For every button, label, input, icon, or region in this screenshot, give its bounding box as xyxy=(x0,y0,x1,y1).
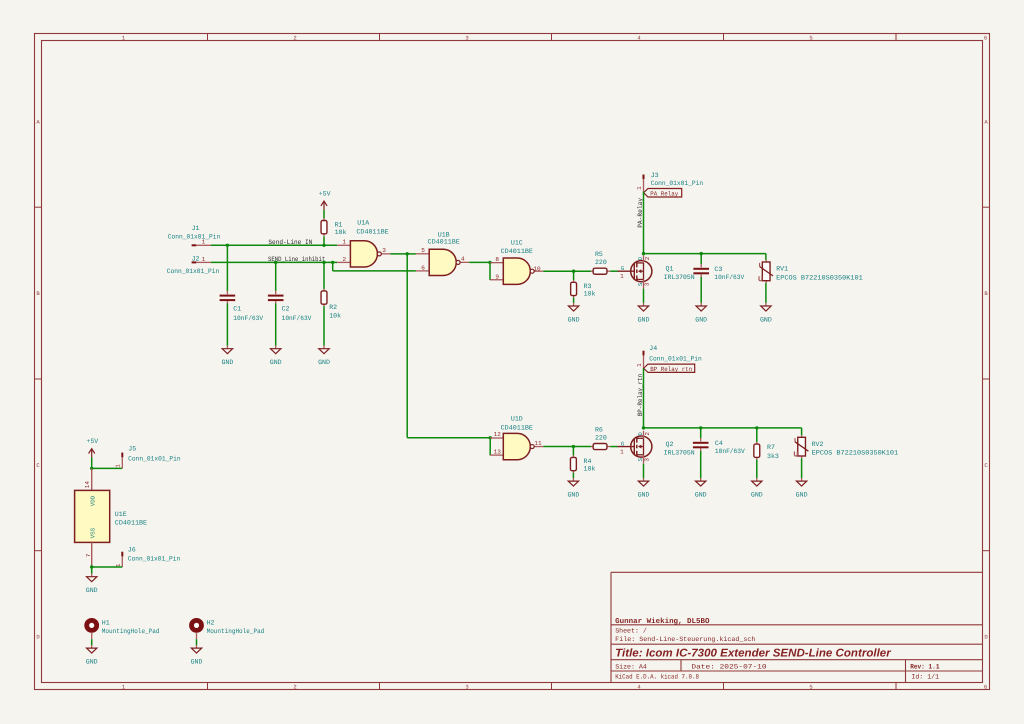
wire xyxy=(643,368,645,428)
wire xyxy=(91,639,93,645)
svg-text:1: 1 xyxy=(620,273,624,280)
svg-text:10k: 10k xyxy=(584,466,596,473)
junction xyxy=(572,270,575,273)
svg-text:2: 2 xyxy=(644,256,651,260)
frame column tick xyxy=(207,34,209,41)
capacitor C3 xyxy=(700,264,702,267)
svg-text:GND: GND xyxy=(318,359,330,366)
varistor RV1 xyxy=(765,260,767,262)
svg-text:IRL3705N: IRL3705N xyxy=(664,449,695,456)
resistor R4 xyxy=(572,455,574,457)
svg-text:1: 1 xyxy=(115,464,122,468)
svg-text:Q2: Q2 xyxy=(666,441,674,448)
svg-text:C2: C2 xyxy=(282,306,290,313)
svg-text:2: 2 xyxy=(644,432,651,436)
wire xyxy=(643,464,645,478)
wire xyxy=(756,460,758,478)
wire xyxy=(333,270,416,272)
svg-text:GND: GND xyxy=(270,359,282,366)
ground xyxy=(572,478,574,481)
wire xyxy=(323,262,325,289)
svg-text:U1C: U1C xyxy=(511,239,523,246)
wire xyxy=(700,428,702,438)
svg-text:RV2: RV2 xyxy=(812,441,824,448)
wire xyxy=(756,428,758,442)
svg-text:GND: GND xyxy=(638,492,650,499)
svg-text:G: G xyxy=(621,440,625,447)
svg-text:KiCad E.D.A. kicad 7.0.8: KiCad E.D.A. kicad 7.0.8 xyxy=(615,674,699,681)
svg-text:C1: C1 xyxy=(233,306,241,313)
frame row tick xyxy=(35,206,42,208)
svg-text:1: 1 xyxy=(342,239,346,246)
ground xyxy=(801,478,803,481)
transistor Q2 IRL3705N N-MOSFET xyxy=(631,436,652,457)
svg-text:U1A: U1A xyxy=(357,219,369,226)
svg-text:CD4011BE: CD4011BE xyxy=(115,520,147,527)
title block border xyxy=(610,572,612,682)
svg-text:14: 14 xyxy=(84,481,91,489)
svg-text:5: 5 xyxy=(809,683,812,690)
wire xyxy=(765,254,767,260)
wire xyxy=(489,438,491,456)
wire xyxy=(211,244,337,246)
svg-text:10k: 10k xyxy=(329,312,341,319)
wire xyxy=(765,283,767,303)
junction xyxy=(406,252,409,255)
svg-text:10k: 10k xyxy=(584,291,596,298)
svg-text:GND: GND xyxy=(191,659,203,666)
svg-text:7: 7 xyxy=(85,553,92,557)
junction xyxy=(699,426,702,429)
svg-text:Conn_01x01_Pin: Conn_01x01_Pin xyxy=(651,180,704,187)
svg-text:File: Send-Line-Steuerung.kica: File: Send-Line-Steuerung.kicad_sch xyxy=(615,636,755,643)
ground xyxy=(196,645,198,648)
op-amp-style NAND gate U1A CD4011BE xyxy=(337,244,350,246)
svg-text:6: 6 xyxy=(421,264,425,271)
op-amp-style NAND gate U1D CD4011BE xyxy=(490,437,503,439)
svg-text:2: 2 xyxy=(342,256,346,263)
svg-text:H1: H1 xyxy=(102,619,110,626)
svg-text:6: 6 xyxy=(984,683,987,690)
junction xyxy=(489,436,492,439)
wire xyxy=(489,262,491,280)
svg-text:Size: A4: Size: A4 xyxy=(615,664,647,671)
net label BP Relay rtn (global) xyxy=(644,364,695,372)
wire xyxy=(543,270,591,272)
svg-text:3: 3 xyxy=(644,282,651,286)
svg-text:J4: J4 xyxy=(649,345,657,352)
wire xyxy=(211,261,337,263)
junction xyxy=(322,261,325,264)
svg-text:10nF/63V: 10nF/63V xyxy=(233,315,263,322)
junction xyxy=(572,445,575,448)
svg-text:VSS: VSS xyxy=(89,527,96,538)
svg-text:J6: J6 xyxy=(128,547,136,554)
svg-text:R2: R2 xyxy=(329,304,337,311)
svg-text:1: 1 xyxy=(202,239,206,246)
wire xyxy=(543,446,591,448)
wire xyxy=(644,427,802,429)
junction xyxy=(226,244,229,247)
junction xyxy=(700,252,703,255)
svg-text:4: 4 xyxy=(461,256,465,263)
wire xyxy=(573,298,575,303)
svg-text:GND: GND xyxy=(760,317,772,324)
svg-text:R5: R5 xyxy=(595,251,603,258)
svg-text:10nF/63V: 10nF/63V xyxy=(282,315,312,322)
svg-text:MountingHole_Pad: MountingHole_Pad xyxy=(207,628,265,635)
svg-text:R4: R4 xyxy=(584,458,592,465)
resistor R1 xyxy=(323,218,325,220)
svg-text:2: 2 xyxy=(293,683,296,690)
svg-text:R6: R6 xyxy=(595,427,603,434)
wire xyxy=(92,467,123,469)
svg-text:5: 5 xyxy=(421,247,425,254)
frame row tick xyxy=(35,378,42,380)
svg-text:J2: J2 xyxy=(192,255,200,262)
svg-text:1: 1 xyxy=(636,186,643,190)
svg-text:GND: GND xyxy=(221,359,233,366)
wire xyxy=(406,254,408,438)
svg-text:5: 5 xyxy=(809,34,812,41)
svg-text:3: 3 xyxy=(465,683,468,690)
resistor R3 xyxy=(573,280,575,282)
wire xyxy=(700,254,702,264)
svg-text:220: 220 xyxy=(595,434,607,441)
svg-text:U1E: U1E xyxy=(115,511,127,518)
svg-text:3: 3 xyxy=(644,458,651,462)
net label PA Relay (global) xyxy=(644,189,682,198)
svg-text:6: 6 xyxy=(984,34,987,41)
svg-text:J1: J1 xyxy=(192,225,200,232)
svg-text:1: 1 xyxy=(202,256,206,263)
capacitor C4 xyxy=(700,438,702,441)
svg-text:Title: Icom IC-7300 Extender S: Title: Icom IC-7300 Extender SEND-Line C… xyxy=(615,648,891,660)
wire xyxy=(226,245,228,291)
op-amp power unit U1E CD4011BE xyxy=(91,468,93,490)
svg-text:GND: GND xyxy=(568,317,580,324)
svg-text:R1: R1 xyxy=(335,222,343,229)
op-amp-style NAND gate U1B CD4011BE xyxy=(416,253,429,255)
ground xyxy=(323,346,325,349)
svg-text:GND: GND xyxy=(796,492,808,499)
svg-text:Conn_01x01_Pin: Conn_01x01_Pin xyxy=(128,555,181,562)
svg-text:CD4011BE: CD4011BE xyxy=(356,229,388,236)
svg-text:Gunnar Wieking, DL5BO: Gunnar Wieking, DL5BO xyxy=(615,617,710,626)
svg-text:Q1: Q1 xyxy=(666,266,674,273)
svg-text:GND: GND xyxy=(86,659,98,666)
wire xyxy=(643,192,645,254)
wire xyxy=(700,277,702,303)
svg-text:Conn_01x01_Pin: Conn_01x01_Pin xyxy=(128,456,181,463)
svg-text:1: 1 xyxy=(636,363,643,367)
ground xyxy=(275,346,277,349)
wire xyxy=(332,262,334,271)
svg-text:2: 2 xyxy=(293,34,296,41)
wire xyxy=(643,289,645,303)
varistor RV2 xyxy=(801,435,803,437)
svg-text:BP Relay rtn: BP Relay rtn xyxy=(650,366,692,373)
junction xyxy=(642,426,645,429)
svg-text:Rev: 1.1: Rev: 1.1 xyxy=(910,664,939,672)
resistor R5 xyxy=(591,270,593,272)
mounting hole H2 MountingHole_Pad xyxy=(192,620,202,630)
junction xyxy=(322,244,325,247)
svg-text:R3: R3 xyxy=(584,283,592,290)
wire xyxy=(573,271,575,280)
ground xyxy=(226,346,228,349)
svg-text:+5V: +5V xyxy=(86,438,98,445)
svg-text:U1D: U1D xyxy=(511,415,523,422)
junction xyxy=(755,426,758,429)
wire xyxy=(91,457,93,468)
svg-text:3: 3 xyxy=(382,247,386,254)
svg-text:10: 10 xyxy=(533,265,541,272)
svg-text:VDD: VDD xyxy=(89,495,96,506)
wire xyxy=(700,451,702,478)
svg-text:MountingHole_Pad: MountingHole_Pad xyxy=(102,628,160,635)
resistor R7 xyxy=(756,442,758,444)
svg-text:PA Relay: PA Relay xyxy=(650,191,678,198)
wire xyxy=(323,236,325,245)
svg-text:GND: GND xyxy=(567,492,579,499)
wire xyxy=(469,261,490,263)
svg-text:GND: GND xyxy=(751,492,763,499)
svg-text:3k3: 3k3 xyxy=(767,453,779,460)
frame column tick xyxy=(551,34,553,41)
svg-text:IRL3705N: IRL3705N xyxy=(664,274,695,281)
wire xyxy=(572,473,574,478)
ground xyxy=(91,574,93,577)
svg-text:CD4011BE: CD4011BE xyxy=(501,248,533,255)
frame column tick xyxy=(723,34,725,41)
svg-text:9: 9 xyxy=(495,274,499,281)
svg-text:C4: C4 xyxy=(715,440,723,447)
junction xyxy=(90,467,93,470)
junction xyxy=(642,252,645,255)
svg-text:+5V: +5V xyxy=(319,191,331,198)
svg-text:220: 220 xyxy=(595,259,607,266)
junction xyxy=(331,261,334,264)
svg-text:10nF/63V: 10nF/63V xyxy=(715,448,745,455)
svg-text:13: 13 xyxy=(494,449,502,456)
junction xyxy=(488,261,491,264)
junction xyxy=(274,261,277,264)
wire xyxy=(323,306,325,345)
svg-text:GND: GND xyxy=(695,492,707,499)
ground xyxy=(765,303,767,306)
svg-text:H2: H2 xyxy=(207,619,215,626)
wire xyxy=(801,458,803,478)
svg-text:Sheet: /: Sheet: / xyxy=(615,627,647,634)
wire xyxy=(610,270,617,272)
svg-text:12: 12 xyxy=(494,431,502,438)
svg-text:10nF/63V: 10nF/63V xyxy=(714,274,744,281)
svg-text:R7: R7 xyxy=(767,444,775,451)
svg-text:GND: GND xyxy=(638,317,650,324)
svg-text:10k: 10k xyxy=(335,229,347,236)
svg-text:RV1: RV1 xyxy=(776,266,788,273)
resistor R6 xyxy=(591,446,593,448)
svg-text:Id: 1/1: Id: 1/1 xyxy=(911,674,939,681)
svg-text:11: 11 xyxy=(534,440,542,447)
svg-text:1: 1 xyxy=(620,448,624,455)
svg-text:CD4011BE: CD4011BE xyxy=(428,238,460,245)
junction xyxy=(90,565,93,568)
frame row tick xyxy=(35,550,42,552)
ground xyxy=(91,645,93,648)
ground xyxy=(756,478,758,481)
wire xyxy=(644,253,766,255)
wire xyxy=(801,428,803,435)
wire xyxy=(92,566,123,568)
ground xyxy=(643,303,645,306)
svg-text:J5: J5 xyxy=(128,445,136,452)
ground xyxy=(573,303,575,306)
wire xyxy=(275,304,277,346)
capacitor C1 xyxy=(226,291,228,294)
svg-text:8: 8 xyxy=(495,256,499,263)
svg-text:J3: J3 xyxy=(651,172,659,179)
frame column tick xyxy=(895,34,897,41)
svg-text:GND: GND xyxy=(695,317,707,324)
wire xyxy=(610,446,617,448)
svg-text:G: G xyxy=(621,265,625,272)
svg-text:Conn_01x01_Pin: Conn_01x01_Pin xyxy=(649,356,702,363)
mounting hole H1 MountingHole_Pad xyxy=(87,620,97,630)
ground xyxy=(700,478,702,481)
capacitor C2 xyxy=(275,291,277,294)
svg-text:3: 3 xyxy=(465,34,468,41)
resistor R2 xyxy=(323,289,325,291)
svg-text:Conn_01x01_Pin: Conn_01x01_Pin xyxy=(167,268,220,275)
wire xyxy=(196,639,198,645)
svg-text:CD4011BE: CD4011BE xyxy=(501,424,533,431)
wire xyxy=(91,567,93,574)
op-amp-style NAND gate U1C CD4011BE xyxy=(490,262,503,264)
ground xyxy=(700,303,702,306)
svg-text:GND: GND xyxy=(86,587,98,594)
frame column tick xyxy=(379,34,381,41)
wire xyxy=(323,210,325,219)
svg-text:EPCOS B72210S0350K101: EPCOS B72210S0350K101 xyxy=(812,450,899,457)
wire xyxy=(572,447,574,456)
wire xyxy=(226,304,228,346)
wire xyxy=(407,437,490,439)
svg-text:C3: C3 xyxy=(714,266,722,273)
wire xyxy=(275,262,277,291)
svg-text:Conn_01x01_Pin: Conn_01x01_Pin xyxy=(168,234,221,241)
svg-text:Date: 2025-07-10: Date: 2025-07-10 xyxy=(691,664,766,671)
ground xyxy=(643,478,645,481)
svg-text:EPCOS B72210S0350K101: EPCOS B72210S0350K101 xyxy=(776,274,863,281)
wire xyxy=(391,253,416,255)
transistor Q1 IRL3705N N-MOSFET xyxy=(631,261,652,282)
